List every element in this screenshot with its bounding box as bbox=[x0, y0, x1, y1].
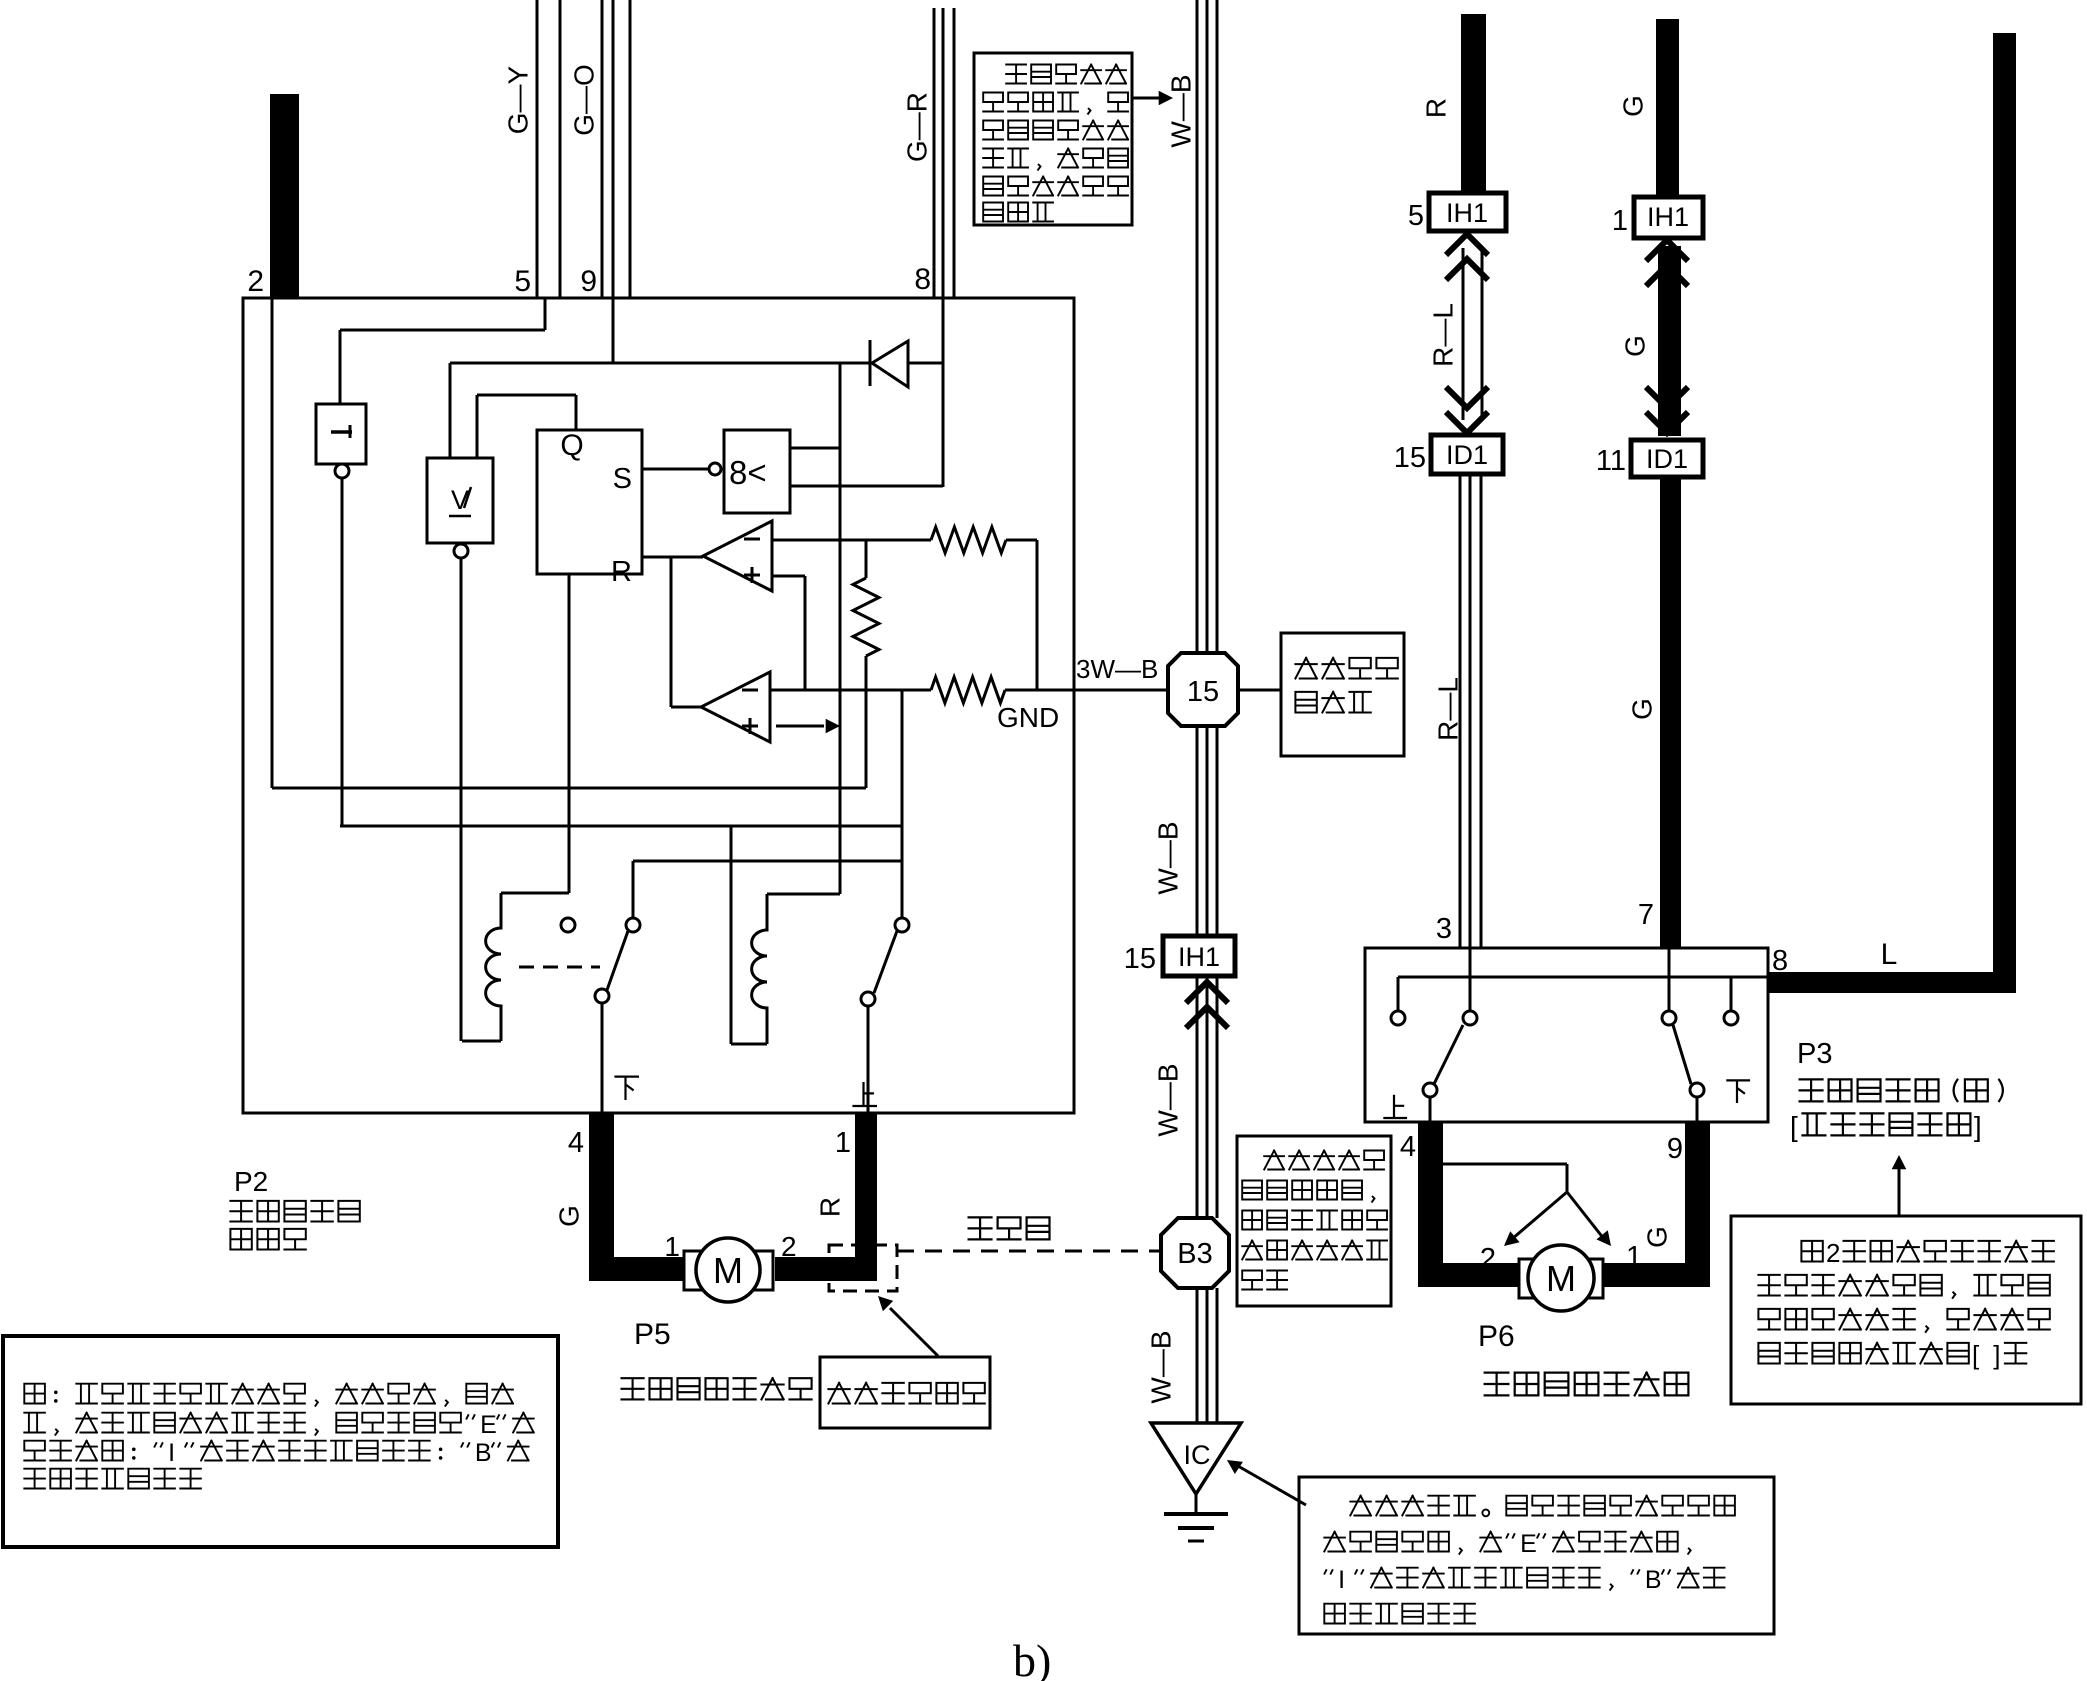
svg-text:[: [ bbox=[1972, 1340, 1980, 1370]
svg-text:G: G bbox=[1617, 95, 1648, 117]
svg-text:4: 4 bbox=[568, 1127, 584, 1159]
svg-text:1: 1 bbox=[664, 1231, 680, 1262]
svg-text:G: G bbox=[1626, 698, 1657, 720]
svg-text:P2: P2 bbox=[234, 1166, 268, 1197]
svg-text:15: 15 bbox=[1124, 943, 1156, 975]
svg-text:G: G bbox=[1619, 335, 1650, 357]
svg-text:1: 1 bbox=[1612, 205, 1628, 237]
svg-text:W—B: W—B bbox=[1145, 1330, 1176, 1403]
svg-text:]: ] bbox=[1974, 1111, 1982, 1142]
svg-text:5: 5 bbox=[514, 265, 531, 298]
svg-text:1: 1 bbox=[1626, 1241, 1642, 1273]
svg-text:G—Y: G—Y bbox=[502, 65, 533, 134]
svg-text:R—L: R—L bbox=[1427, 303, 1458, 367]
svg-text:3: 3 bbox=[1436, 913, 1452, 945]
svg-text:]: ] bbox=[1993, 1340, 2000, 1370]
svg-text:I: I bbox=[1338, 1566, 1345, 1594]
svg-text:2: 2 bbox=[1826, 1238, 1840, 1268]
svg-text:2: 2 bbox=[247, 265, 264, 298]
svg-text:G: G bbox=[1641, 1226, 1672, 1248]
svg-text:Q: Q bbox=[560, 429, 583, 462]
svg-text:9: 9 bbox=[1667, 1133, 1683, 1165]
svg-text:G—R: G—R bbox=[901, 92, 932, 162]
svg-text:5: 5 bbox=[1408, 200, 1424, 232]
svg-text:R: R bbox=[611, 556, 632, 588]
svg-text:P3: P3 bbox=[1797, 1038, 1832, 1070]
svg-text:4: 4 bbox=[1400, 1131, 1416, 1163]
svg-text:B3: B3 bbox=[1177, 1238, 1212, 1270]
svg-text:ID1: ID1 bbox=[1646, 444, 1688, 474]
svg-text:9: 9 bbox=[580, 265, 597, 298]
svg-text:IC: IC bbox=[1184, 1440, 1211, 1470]
svg-text:G: G bbox=[553, 1205, 584, 1227]
svg-text:7: 7 bbox=[1638, 899, 1654, 931]
svg-text:1: 1 bbox=[835, 1127, 851, 1159]
svg-text:E: E bbox=[1520, 1530, 1537, 1558]
svg-text:IH1: IH1 bbox=[1647, 202, 1689, 232]
svg-text:M: M bbox=[713, 1250, 743, 1291]
svg-text:11: 11 bbox=[1596, 445, 1626, 477]
svg-text:W—B: W—B bbox=[1165, 74, 1196, 147]
svg-text:GND: GND bbox=[997, 702, 1059, 733]
svg-text:15: 15 bbox=[1394, 442, 1426, 474]
svg-text:15: 15 bbox=[1187, 676, 1219, 708]
svg-text:b): b) bbox=[1013, 1635, 1051, 1681]
svg-text:P5: P5 bbox=[634, 1318, 671, 1351]
svg-text:3W—B: 3W—B bbox=[1076, 654, 1158, 684]
svg-text:2: 2 bbox=[781, 1231, 797, 1262]
svg-text:ID1: ID1 bbox=[1446, 440, 1488, 470]
svg-text:IH1: IH1 bbox=[1178, 942, 1220, 972]
svg-text:8: 8 bbox=[914, 263, 931, 296]
svg-text:B: B bbox=[475, 1439, 492, 1467]
svg-text:G—O: G—O bbox=[568, 64, 599, 136]
svg-text:I: I bbox=[168, 1439, 175, 1467]
svg-text:B: B bbox=[1645, 1566, 1662, 1594]
svg-text:L: L bbox=[1881, 938, 1898, 971]
svg-text:S: S bbox=[613, 463, 632, 495]
svg-text:8<: 8< bbox=[729, 454, 767, 491]
svg-text:2: 2 bbox=[1480, 1243, 1496, 1275]
svg-text:R: R bbox=[814, 1197, 845, 1217]
svg-text:M: M bbox=[1546, 1258, 1576, 1299]
svg-text:W—B: W—B bbox=[1152, 1063, 1183, 1136]
svg-text:R—L: R—L bbox=[1432, 677, 1463, 741]
svg-text:W—B: W—B bbox=[1152, 821, 1183, 894]
svg-text:E: E bbox=[480, 1411, 497, 1439]
svg-text:IH1: IH1 bbox=[1446, 198, 1488, 228]
svg-text:[: [ bbox=[1790, 1111, 1798, 1142]
svg-text:R: R bbox=[1420, 98, 1451, 118]
svg-text:P6: P6 bbox=[1478, 1320, 1515, 1353]
